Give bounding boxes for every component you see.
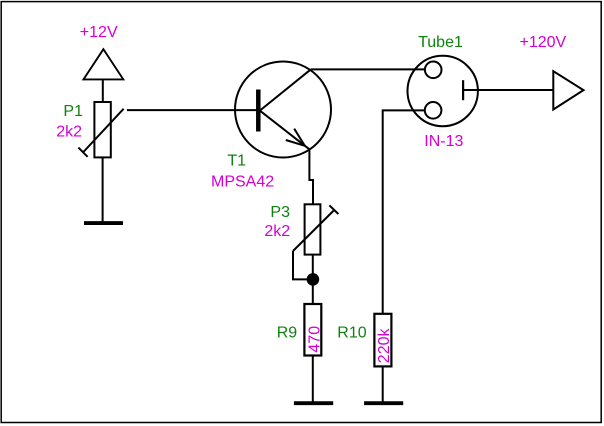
T1 envelope bbox=[235, 62, 331, 158]
wire bbox=[102, 157, 104, 221]
svg-text:470: 470 bbox=[306, 326, 323, 353]
svg-text:+12V: +12V bbox=[80, 24, 118, 41]
T1 emitter lead bbox=[260, 111, 310, 150]
wire wiper of P3 bbox=[293, 251, 313, 279]
T1 collector lead bbox=[260, 69, 311, 110]
power terminal +120V bbox=[553, 71, 583, 109]
T1 emitter arrow barb upper bbox=[294, 129, 305, 146]
T1 emitter arrow barb lower bbox=[286, 140, 305, 146]
ground bbox=[84, 221, 123, 225]
ground bbox=[364, 401, 403, 405]
wire bbox=[382, 366, 384, 401]
P3 wiper arrow bbox=[293, 211, 334, 252]
wire collector to tube bbox=[311, 68, 425, 70]
Tube1 pin circle bottom bbox=[425, 102, 442, 119]
svg-text:220k: 220k bbox=[376, 328, 393, 364]
svg-text:IN-13: IN-13 bbox=[424, 133, 463, 150]
potentiometer P3 bbox=[293, 204, 338, 254]
tube Tube1 IN-13 bbox=[408, 56, 478, 126]
Tube1 pin circle top bbox=[425, 62, 442, 79]
resistor R9 bbox=[304, 304, 321, 356]
svg-text:+120V: +120V bbox=[520, 34, 567, 51]
svg-text:2k2: 2k2 bbox=[56, 123, 82, 140]
svg-text:R9: R9 bbox=[277, 324, 298, 341]
svg-text:MPSA42: MPSA42 bbox=[211, 173, 274, 190]
Tube1 envelope bbox=[408, 56, 478, 126]
power terminal +12V bbox=[84, 49, 124, 79]
wire bbox=[312, 255, 314, 304]
wire tube cathode to R10 bbox=[383, 110, 425, 313]
svg-text:2k2: 2k2 bbox=[264, 223, 290, 240]
svg-text:P1: P1 bbox=[63, 103, 83, 120]
P1 wiper end tick bbox=[78, 148, 87, 157]
P3 wiper end tick bbox=[329, 205, 338, 214]
Tube1 anode bar bbox=[462, 80, 464, 100]
wire bbox=[312, 356, 314, 402]
T1 base bar bbox=[256, 90, 261, 132]
resistor R10 bbox=[374, 314, 391, 367]
P3 body bbox=[305, 204, 321, 254]
svg-text:P3: P3 bbox=[270, 204, 290, 221]
transistor T1 bbox=[235, 62, 331, 158]
P1 body bbox=[94, 102, 110, 157]
potentiometer P1 bbox=[78, 102, 123, 157]
wire emitter down bbox=[309, 149, 313, 204]
svg-text:R10: R10 bbox=[337, 324, 366, 341]
ground bbox=[294, 401, 333, 405]
svg-text:Tube1: Tube1 bbox=[418, 34, 463, 51]
wire anode to output bbox=[463, 89, 552, 91]
junction node bbox=[307, 273, 320, 286]
P1 wiper arrow bbox=[83, 109, 124, 153]
wire bbox=[127, 109, 258, 111]
wire bbox=[102, 79, 104, 102]
svg-text:T1: T1 bbox=[227, 152, 246, 169]
